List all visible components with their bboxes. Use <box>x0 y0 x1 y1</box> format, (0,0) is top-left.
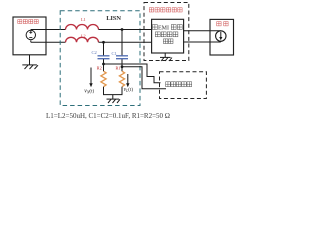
arrow vL <box>126 74 129 87</box>
svg-text:vN(t): vN(t) <box>84 89 94 95</box>
node: vL tap <box>121 65 124 68</box>
wire EMI box to load (bottom) <box>184 40 221 43</box>
label 含EMI滤波 / 器的开关 / 电源 <box>153 25 183 44</box>
label 待测开关电源 (red CJK blobs) <box>149 8 182 12</box>
EMI filter SMPS box <box>152 19 184 53</box>
label 供电电源 (red CJK blobs) <box>18 20 38 24</box>
inductor L1 <box>66 25 99 30</box>
svg-text:L1: L1 <box>81 17 86 22</box>
dc source V1 <box>26 30 35 43</box>
resistor bottom leads + joining wire <box>104 87 123 95</box>
resistor R2 <box>101 71 106 87</box>
wire L (top) left segment <box>31 29 66 31</box>
ground (EMI box) <box>160 53 172 61</box>
spectrum analyzer dashed box 频谱分析仪 <box>160 72 207 99</box>
capacitor C2 <box>98 56 110 59</box>
inductor L2 <box>66 37 99 42</box>
node: C2 tap on wire N <box>102 41 105 44</box>
LISN dashed box <box>60 11 140 106</box>
svg-text:R1: R1 <box>116 65 121 70</box>
wire N right segment to EMI box <box>99 41 152 43</box>
ground (supply) <box>22 55 38 69</box>
svg-text:C2: C2 <box>92 50 97 55</box>
node: C1 tap on wire L <box>121 28 124 31</box>
load box 负载 <box>210 19 234 55</box>
svg-text:R2: R2 <box>97 65 102 70</box>
label 频谱分析仪 (CJK blobs) <box>166 82 192 87</box>
current source (load) <box>216 31 226 41</box>
arrow vN <box>89 68 92 88</box>
resistor R1 <box>119 71 124 87</box>
wire EMI box to load (top) <box>184 30 221 32</box>
svg-text:L1=L2=50uH, C1=C2=0.1uF, R1=R2: L1=L2=50uH, C1=C2=0.1uF, R1=R2=50 Ω <box>46 112 170 120</box>
label 负载 (red CJK blobs) <box>217 22 228 26</box>
capacitor C1 <box>116 56 128 59</box>
supply box 供电电源 <box>13 17 46 55</box>
svg-text:vL(t): vL(t) <box>124 87 134 93</box>
wire vN tap to analyzer <box>104 64 161 83</box>
svg-text:EMI: EMI <box>158 25 169 31</box>
svg-text:LISN: LISN <box>106 15 121 22</box>
DUT dashed box 待测开关电源 <box>144 3 189 61</box>
wire N (bottom) left segment <box>31 41 66 43</box>
wire vL tap to analyzer <box>122 67 166 89</box>
svg-text:C1: C1 <box>112 51 117 56</box>
node: vN tap <box>102 63 105 66</box>
ground (LISN) <box>107 95 121 103</box>
wire L right segment to EMI box <box>99 29 152 31</box>
